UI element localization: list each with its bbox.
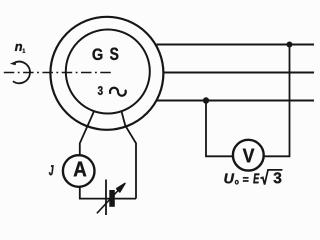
generator GS inner circle (rotor) [66,30,150,114]
label J (armature current) [49,165,54,175]
rheostat R (variable load resistor) [97,180,125,216]
junction node on phase line L1 [287,42,293,48]
phase line L2 [164,72,315,74]
wire: ammeter to rheostat and load loop [80,187,136,199]
ammeter A [63,155,95,187]
voltmeter V [233,140,264,171]
three-phase sine symbol [110,88,126,96]
shaft center line (dash-dot axis) [4,72,114,74]
phase line L3 [157,100,314,102]
label n1 (synchronous speed) [15,44,22,51]
generator GS outer circle (stator) [50,17,163,130]
wire: voltmeter right branch [264,45,290,157]
wire: stator lead to ammeter [80,112,94,156]
rotation arrow (shaft) [10,61,30,83]
value label Uo = E*sqrt(3) [224,170,282,185]
label GS [93,49,103,61]
junction node on phase line L3 [203,97,209,103]
wire: voltmeter left branch [206,101,233,157]
phase line L1 [156,44,314,46]
wire: stator right lead [121,111,136,199]
value label 3 (three-phase) [98,86,103,95]
